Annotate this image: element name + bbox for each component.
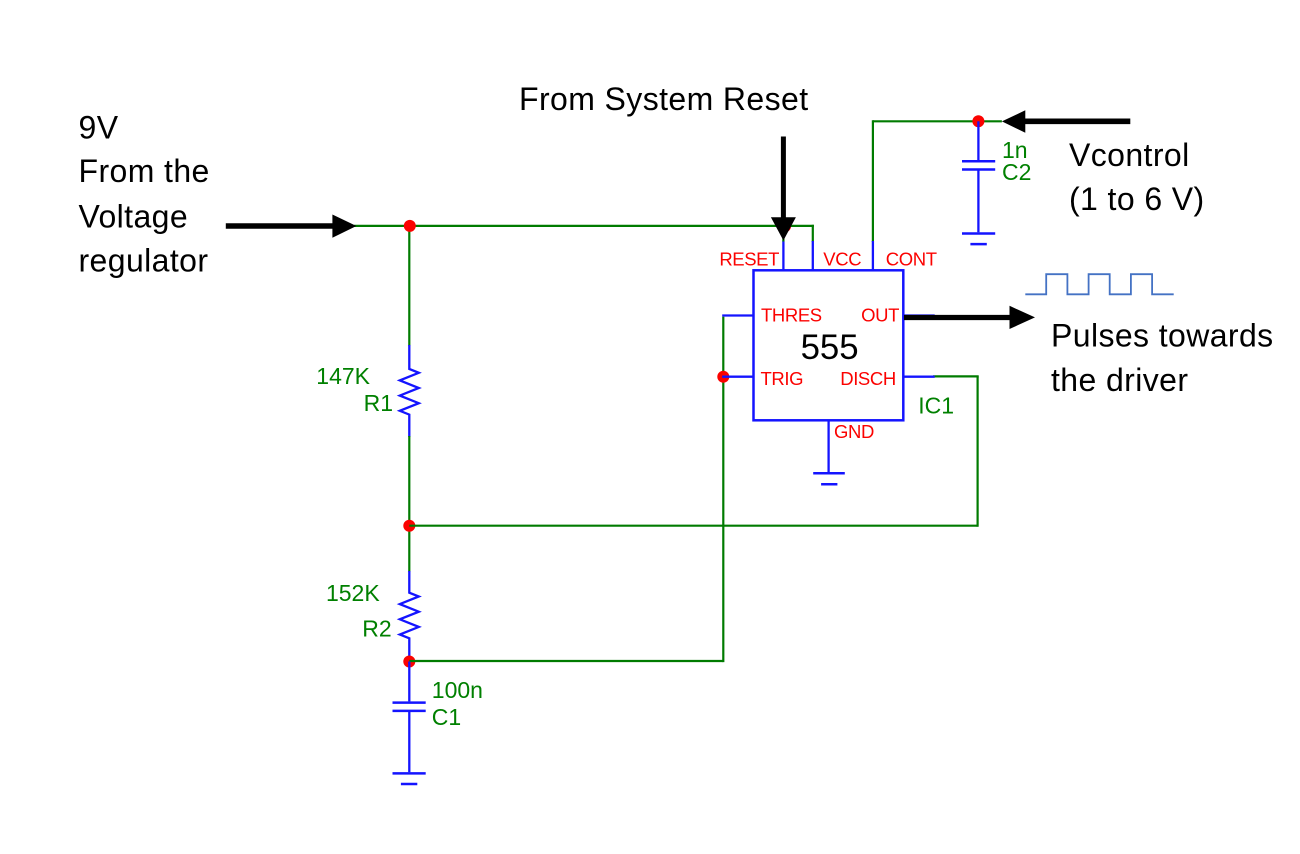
svg-text:GND: GND: [834, 421, 874, 442]
annotation: Pulses towards the driver: [1051, 318, 1274, 398]
svg-text:R2: R2: [362, 616, 391, 642]
wire 9V rail horizontal: [354, 225, 814, 227]
svg-text:9V: 9V: [79, 110, 119, 146]
pin THRES stub: [722, 314, 753, 316]
wire CONT net horizontal: [873, 120, 1002, 122]
node Vcontrol/C2 junction: [972, 115, 984, 127]
pin VCC stub: [812, 241, 814, 270]
wire TRIG riser vertical: [722, 317, 724, 662]
pin DISCH stub: [903, 376, 934, 378]
node TRIG junction: [717, 371, 729, 383]
wire junction to DISCH riser: [409, 525, 977, 527]
annotation: Vcontrol (1 to 6 V): [1069, 137, 1205, 217]
svg-text:C2: C2: [1002, 159, 1031, 185]
svg-text:RESET: RESET: [719, 249, 779, 270]
svg-text:THRES: THRES: [761, 305, 822, 326]
capacitor C2: [962, 121, 995, 232]
svg-text:R1: R1: [364, 390, 393, 416]
pin CONT stub: [872, 241, 874, 270]
svg-text:100n: 100n: [432, 677, 483, 703]
node RESET junction (under arrow): [779, 220, 791, 232]
wire RESET drop (under arrow): [782, 226, 784, 242]
pin TRIG stub: [722, 376, 753, 378]
svg-text:From the: From the: [79, 153, 210, 189]
arrow Vcontrol input (left): [1002, 110, 1130, 133]
svg-text:152K: 152K: [326, 580, 380, 606]
svg-text:(1 to 6 V): (1 to 6 V): [1069, 181, 1205, 217]
svg-text:the driver: the driver: [1051, 362, 1188, 398]
ground below C2: [962, 234, 995, 245]
ground below IC: [813, 473, 845, 484]
pin RESET stub: [782, 241, 784, 271]
svg-text:regulator: regulator: [79, 243, 209, 279]
node R2/C1/TRIG junction: [403, 656, 415, 668]
wire VCC drop: [812, 225, 814, 242]
IC IC1 555 timer body: [754, 270, 904, 420]
wire 9V to R1 top: [408, 226, 410, 346]
svg-text:555: 555: [801, 328, 859, 367]
resistor R1: [400, 345, 419, 437]
node R1/R2 junction: [403, 520, 415, 532]
node 9V junction: [404, 220, 416, 232]
resistor R2: [400, 571, 419, 661]
svg-text:C1: C1: [432, 704, 461, 730]
svg-text:DISCH: DISCH: [840, 368, 896, 389]
waveform pulse train icon: [1025, 274, 1173, 294]
annotation: 9V From the Voltage regulator: [79, 110, 210, 279]
svg-text:CONT: CONT: [886, 249, 937, 270]
svg-text:IC1: IC1: [918, 393, 954, 419]
svg-text:Vcontrol: Vcontrol: [1069, 137, 1190, 173]
capacitor C1: [393, 662, 426, 773]
wire junction to TRIG riser: [409, 660, 723, 662]
wire CONT drop vertical: [872, 120, 874, 242]
arrow OUT pulses (right): [904, 306, 1035, 329]
svg-text:Pulses towards: Pulses towards: [1051, 318, 1274, 354]
ground below C1: [393, 773, 426, 784]
wire DISCH riser vertical: [976, 376, 978, 526]
pin OUT stub: [903, 314, 934, 316]
arrow 9V input: [226, 215, 357, 238]
arrow From System Reset (down): [771, 137, 796, 241]
svg-text:147K: 147K: [316, 363, 370, 389]
svg-text:Voltage: Voltage: [79, 198, 189, 234]
svg-text:From System Reset: From System Reset: [519, 81, 809, 117]
wire R1 bottom to R2 top: [408, 436, 410, 572]
svg-text:TRIG: TRIG: [761, 368, 804, 389]
svg-text:OUT: OUT: [861, 305, 899, 326]
wire DISCH stub green: [933, 375, 979, 377]
svg-text:VCC: VCC: [823, 249, 861, 270]
pin GND stub: [827, 420, 829, 473]
